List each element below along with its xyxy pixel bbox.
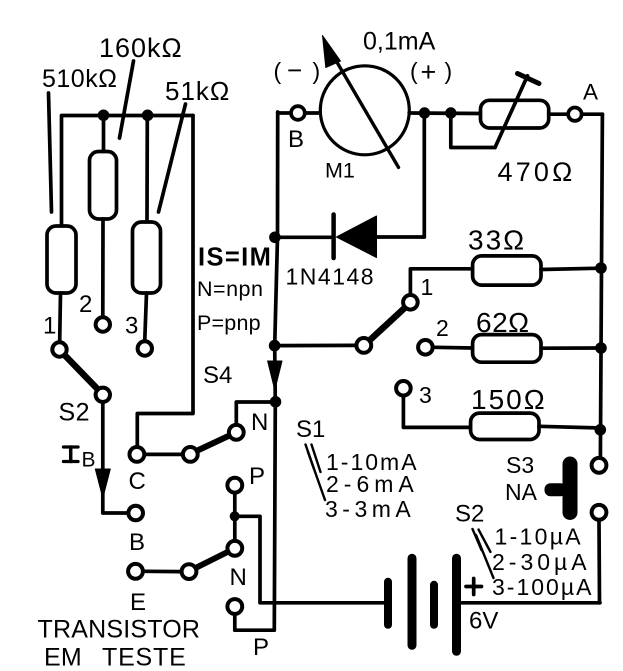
svg-text:B: B: [129, 529, 145, 556]
junction: meter plus / diode: [419, 107, 430, 118]
wire: bus right drop to C: [137, 116, 193, 446]
label 510kΩ: [42, 65, 117, 212]
resistor 160kΩ body: [90, 116, 117, 316]
svg-text:160kΩ: 160kΩ: [99, 33, 183, 63]
switch S1: [275, 309, 404, 444]
svg-text:S4: S4: [203, 362, 232, 389]
S1 position 1: [403, 269, 473, 310]
wire IB with current arrow: [64, 404, 127, 514]
svg-text:3-100µA: 3-100µA: [492, 574, 593, 600]
pushbutton S3: [505, 452, 606, 603]
svg-text:): ): [313, 58, 321, 84]
junction: wiper loop: [445, 107, 456, 118]
svg-text:470Ω: 470Ω: [498, 157, 576, 187]
junction: 33 ohm: [595, 262, 607, 274]
switch S2: [59, 356, 111, 427]
junction: 150 ohm: [595, 424, 607, 436]
junction: N to main rail: [270, 396, 282, 408]
junction: diode branch: [269, 232, 281, 244]
svg-text:S3: S3: [506, 452, 534, 478]
svg-text:2: 2: [79, 291, 92, 318]
potentiometer 470Ω: [451, 74, 576, 188]
switch S4 lower pole N: [227, 520, 246, 591]
svg-text:E: E: [130, 589, 146, 616]
svg-text:TESTE: TESTE: [102, 644, 187, 671]
svg-text:S1: S1: [296, 416, 325, 443]
label S2 (ranges): [455, 501, 593, 601]
label 160kΩ: [99, 33, 183, 138]
junction: 51k top: [142, 110, 154, 122]
svg-text:33Ω: 33Ω: [468, 225, 526, 256]
svg-text:S2: S2: [455, 501, 484, 528]
svg-text:510kΩ: 510kΩ: [42, 65, 117, 93]
svg-text:NA: NA: [505, 479, 538, 505]
svg-text:N: N: [230, 564, 247, 591]
junction: P/N tie: [230, 511, 240, 521]
svg-text:TRANSISTOR: TRANSISTOR: [38, 616, 201, 644]
terminal B (transistor base): [128, 506, 145, 556]
caption TRANSISTOR EM TESTE: [38, 616, 201, 671]
main rail wire (meter minus bus): [274, 112, 277, 630]
junction: S1 branch: [269, 340, 281, 352]
svg-text:+: +: [421, 57, 437, 87]
svg-text:): ): [445, 58, 453, 84]
resistor 62Ω: [473, 307, 601, 362]
meter M1: [320, 36, 409, 183]
junction: 62 ohm: [595, 342, 607, 354]
svg-text:1-10µA: 1-10µA: [495, 524, 583, 550]
svg-text:C: C: [129, 468, 146, 495]
resistor 510kΩ body: [47, 226, 76, 341]
svg-text:2: 2: [436, 315, 449, 341]
terminal C (collector): [129, 447, 146, 495]
svg-text:1: 1: [421, 274, 434, 300]
svg-text:N: N: [251, 409, 268, 436]
svg-text:EM: EM: [44, 644, 82, 671]
svg-text:6V: 6V: [469, 608, 498, 635]
svg-text:P=pnp: P=pnp: [197, 311, 261, 335]
switch S4 upper pole: [146, 402, 271, 462]
node 2: [79, 291, 110, 332]
svg-text:−: −: [287, 55, 302, 85]
svg-text:N=npn: N=npn: [197, 277, 263, 301]
svg-text:B: B: [82, 449, 96, 472]
svg-text:150Ω: 150Ω: [471, 384, 547, 415]
wire: meter plus to pot: [409, 111, 480, 115]
label 51kΩ: [159, 76, 231, 212]
wire: diode anode up to meter plus: [422, 113, 426, 237]
diode 1N4148: [275, 215, 424, 290]
terminal E (emitter): [128, 552, 227, 616]
svg-text:62Ω: 62Ω: [476, 307, 530, 338]
svg-text:IS=IM: IS=IM: [198, 244, 272, 272]
node 3: [125, 313, 152, 356]
resistor 51kΩ body: [133, 116, 161, 340]
svg-text:S2: S2: [59, 399, 91, 427]
node 1: [43, 313, 67, 357]
svg-text:P: P: [253, 634, 269, 661]
terminal B (meter minus): [278, 106, 321, 153]
svg-text:1N4148: 1N4148: [286, 264, 376, 290]
svg-text:2-6mA: 2-6mA: [326, 471, 419, 497]
terminal A: [568, 80, 602, 121]
label S1 ranges: [306, 445, 419, 523]
S1 position 3: [396, 381, 471, 427]
svg-text:3-3mA: 3-3mA: [325, 496, 415, 522]
battery 6V: [384, 554, 600, 656]
svg-text:0,1mA: 0,1mA: [363, 28, 436, 56]
IS current arrow: [268, 361, 282, 390]
svg-text:(: (: [274, 58, 282, 84]
svg-text:1: 1: [43, 313, 56, 340]
svg-text:P: P: [249, 463, 265, 490]
wire: top bus: [62, 116, 194, 227]
svg-text:B: B: [288, 126, 304, 153]
right rail wire: [600, 114, 602, 456]
wire: tie to battery negative: [238, 516, 384, 603]
terminal P upper: [227, 463, 265, 511]
junction: 160k top: [98, 110, 110, 122]
svg-text:A: A: [583, 80, 598, 105]
resistor 33Ω: [468, 225, 601, 286]
resistor 150Ω: [471, 384, 601, 440]
S1 position 2: [418, 315, 473, 355]
svg-text:3: 3: [419, 382, 432, 408]
svg-text:3: 3: [125, 313, 138, 340]
svg-text:51kΩ: 51kΩ: [165, 76, 230, 106]
svg-text:(: (: [410, 58, 418, 84]
svg-text:2-30µA: 2-30µA: [492, 549, 591, 575]
terminal P lower: [227, 599, 273, 661]
svg-text:M1: M1: [325, 159, 355, 183]
